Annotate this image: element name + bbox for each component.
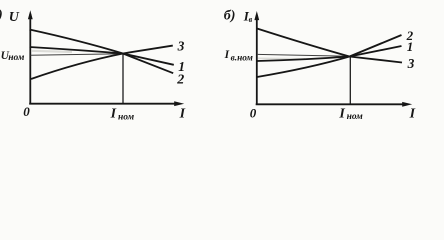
svg-text:б): б): [224, 9, 236, 24]
svg-text:ном: ном: [8, 53, 25, 63]
svg-text:U: U: [9, 10, 20, 25]
curve 1 (left graph, separate excitation): [30, 47, 174, 65]
svg-text:2: 2: [176, 72, 184, 87]
svg-text:ном: ном: [347, 112, 364, 122]
svg-text:I: I: [409, 106, 416, 121]
I_nom vertical line (right): [349, 57, 351, 104]
svg-text:0: 0: [250, 106, 257, 121]
y-axis: [28, 10, 33, 104]
svg-text:I: I: [338, 106, 345, 121]
curve 2 (right graph, shunt: rising): [257, 35, 402, 77]
svg-text:ном: ном: [118, 113, 135, 123]
svg-text:а): а): [0, 8, 3, 23]
svg-text:I: I: [110, 106, 117, 121]
curve 3 (left graph, compound: rising): [31, 46, 173, 79]
I_v.nom level line: [257, 54, 350, 56]
scan bleed smudge (right): [258, 57, 305, 60]
curve 2 (left graph, shunt: steep drop): [30, 30, 174, 74]
curve 1 (right graph): [257, 46, 402, 61]
U_nom level line: [31, 54, 124, 55]
svg-text:3: 3: [407, 56, 415, 71]
svg-text:в: в: [249, 15, 253, 24]
svg-text:1: 1: [407, 39, 414, 54]
curve 3 (right graph, compound: falling): [257, 29, 402, 63]
I_nom vertical line: [122, 54, 124, 104]
svg-text:в.ном: в.ном: [231, 53, 254, 63]
x-axis (right): [256, 102, 413, 107]
svg-text:I: I: [224, 49, 230, 61]
svg-text:0: 0: [23, 104, 30, 119]
svg-text:I: I: [179, 107, 186, 122]
svg-text:3: 3: [177, 39, 185, 54]
scan bleed smudge (left): [31, 51, 72, 52]
y-axis (right): [254, 11, 259, 105]
x-axis: [29, 101, 184, 106]
